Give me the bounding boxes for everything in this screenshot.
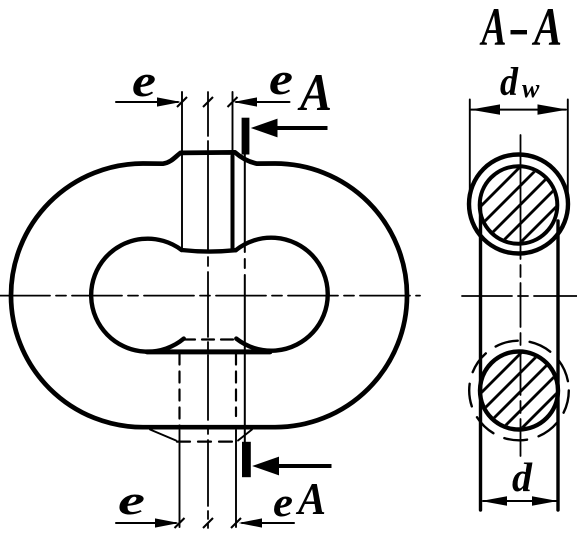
arrowhead e top-right — [234, 97, 258, 106]
arrowhead e top-left — [157, 97, 181, 106]
d_w extension lines — [469, 100, 471, 206]
arrowhead e bottom-right — [239, 518, 263, 527]
horizontal centerline (left view) — [0, 295, 420, 297]
dimension e bottom-right: line — [242, 522, 294, 524]
adjoining link bar edge right thick (top) — [231, 156, 235, 250]
svg-text:A: A — [295, 473, 326, 524]
svg-text:d: d — [512, 454, 532, 500]
inner hole seat dip (top) — [182, 250, 236, 252]
inner hole left lobe arc — [91, 239, 184, 352]
svg-text:A: A — [479, 0, 506, 57]
vertical centerline of link (chain line) — [207, 92, 209, 528]
hidden adjoining link bar edges (bottom, dashed) — [178, 354, 180, 427]
svg-text:e: e — [273, 479, 293, 525]
chain link outer outline (left view) — [11, 152, 407, 427]
arrowhead d left (points left) — [481, 496, 507, 506]
section arrow top — [251, 119, 278, 138]
adjoining link bar edge right thin above outline (top) — [232, 92, 234, 157]
link outline tangent lines (right view) — [479, 203, 482, 510]
adjoining link bar edge left (top) — [181, 92, 183, 250]
svg-text:e: e — [269, 54, 293, 104]
section mark thick bar bottom — [242, 442, 251, 477]
svg-text:e: e — [118, 477, 145, 523]
svg-text:A: A — [532, 0, 562, 57]
svg-text:A: A — [297, 64, 332, 122]
section arrow bottom — [252, 457, 279, 476]
extension lines below outline (bottom) — [179, 430, 181, 527]
arrowhead d right (points right) — [532, 496, 558, 506]
horizontal centerline (right view) — [462, 295, 577, 297]
section A-A outer circle (weld dia d_w, top) — [469, 155, 568, 254]
hidden seat line at hole bottom (dashed) — [183, 338, 236, 340]
arrowhead d_w right (points right) — [538, 104, 568, 114]
title A-A dash — [511, 30, 528, 34]
section A-A inner circle (wire dia d, top) — [480, 166, 558, 244]
d_w dimension line — [471, 109, 566, 111]
vertical centerline (right view) — [520, 135, 522, 259]
section cutting plane line A-A — [244, 154, 246, 442]
svg-text:d: d — [500, 59, 519, 104]
arrowhead d_w left (points left) — [470, 104, 500, 114]
svg-text:e: e — [132, 56, 156, 106]
dimension e top-right: line — [236, 101, 290, 103]
inner hole right lobe arc — [236, 238, 328, 351]
inner hole bottom tangent edge — [147, 349, 270, 354]
dimension ticks top — [177, 97, 187, 107]
dimension e bottom-left: line — [116, 522, 176, 524]
phantom weld circle bottom (dashed) — [469, 341, 569, 441]
arrowhead e bottom-left — [155, 518, 179, 527]
dimension ticks bottom — [175, 518, 185, 528]
section A-A bottom circle (wire dia d) — [480, 352, 558, 430]
hidden crown bump below bottom outline — [150, 430, 176, 441]
section mark thick bar top — [242, 118, 250, 155]
d dimension line (bottom right) — [483, 500, 557, 502]
svg-text:w: w — [522, 74, 540, 103]
dimension e top-left: line — [116, 101, 178, 103]
